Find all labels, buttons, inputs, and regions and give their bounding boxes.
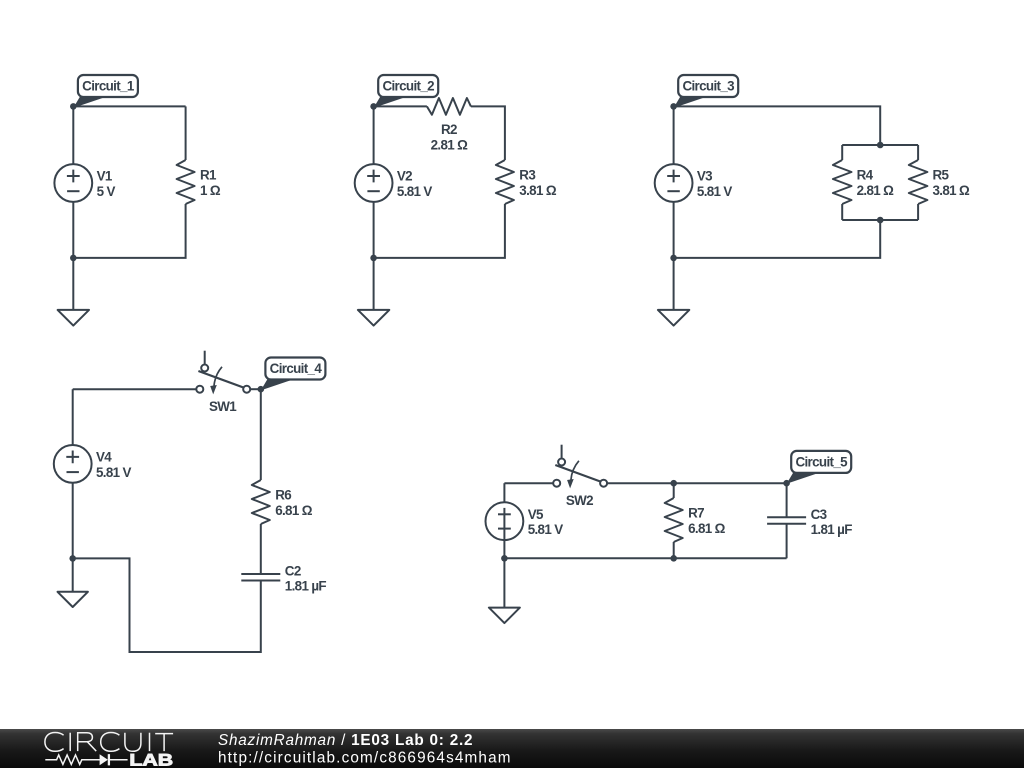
junction bbox=[670, 103, 677, 110]
wire bbox=[72, 202, 74, 258]
svg-text:V4: V4 bbox=[96, 450, 112, 465]
svg-text:R4: R4 bbox=[857, 168, 874, 183]
voltage source V1 bbox=[54, 164, 115, 202]
wire bbox=[786, 524, 788, 559]
wire bbox=[185, 106, 187, 160]
junction bbox=[670, 555, 677, 562]
junction bbox=[370, 255, 377, 262]
wire bbox=[373, 106, 375, 164]
svg-text:V1: V1 bbox=[97, 169, 113, 184]
wire bbox=[674, 220, 881, 258]
junction bbox=[70, 103, 77, 110]
junction bbox=[501, 555, 508, 562]
svg-text:SW1: SW1 bbox=[209, 399, 237, 414]
svg-text:V2: V2 bbox=[397, 169, 412, 184]
wire bbox=[504, 482, 553, 484]
node Circuit_1 label callout bbox=[73, 75, 138, 108]
resistor R1 bbox=[177, 160, 221, 204]
svg-text:C3: C3 bbox=[811, 507, 827, 522]
wire bbox=[374, 105, 427, 107]
ground bbox=[58, 258, 89, 326]
svg-text:1.81 µF: 1.81 µF bbox=[811, 522, 853, 537]
svg-text:C2: C2 bbox=[285, 564, 301, 579]
wire bbox=[471, 106, 505, 160]
ground bbox=[58, 558, 88, 607]
junction bbox=[370, 103, 377, 110]
wire bbox=[842, 144, 918, 146]
wire bbox=[503, 540, 505, 558]
wire bbox=[374, 204, 505, 258]
wire bbox=[673, 202, 675, 258]
junction bbox=[877, 142, 884, 149]
wire bbox=[607, 482, 787, 484]
wire bbox=[260, 524, 262, 574]
wire bbox=[250, 388, 260, 390]
node Circuit_2 label callout bbox=[374, 75, 439, 108]
wire bbox=[674, 106, 881, 145]
svg-text:5.81 V: 5.81 V bbox=[397, 184, 433, 199]
capacitor C3 bbox=[767, 507, 852, 537]
svg-text:R7: R7 bbox=[688, 506, 704, 521]
svg-text:5.81 V: 5.81 V bbox=[697, 184, 733, 199]
node Circuit_4 label callout bbox=[261, 358, 326, 391]
wire bbox=[73, 204, 185, 258]
voltage source V4 bbox=[54, 445, 132, 483]
junction bbox=[670, 255, 677, 262]
capacitor C2 bbox=[241, 564, 326, 594]
svg-text:1 Ω: 1 Ω bbox=[200, 183, 221, 198]
svg-text:1.81 µF: 1.81 µF bbox=[285, 579, 327, 594]
svg-text:2.81 Ω: 2.81 Ω bbox=[857, 183, 895, 198]
resistor R6 bbox=[252, 480, 313, 524]
wire bbox=[373, 202, 375, 258]
wire bbox=[73, 388, 197, 390]
resistor R3 bbox=[496, 160, 557, 204]
junction bbox=[258, 386, 265, 393]
svg-text:Circuit_1: Circuit_1 bbox=[82, 79, 135, 94]
wire bbox=[841, 145, 843, 160]
junction bbox=[877, 217, 884, 224]
junction bbox=[670, 480, 677, 487]
footer bar bbox=[0, 729, 1024, 768]
wire bbox=[673, 542, 675, 558]
switch SW2 bbox=[553, 445, 607, 508]
node Circuit_5 label callout bbox=[787, 451, 852, 484]
wire bbox=[673, 106, 675, 164]
svg-text:ShazimRahman / 1E03 Lab 0: 2.2: ShazimRahman / 1E03 Lab 0: 2.2 bbox=[218, 732, 473, 749]
svg-text:R5: R5 bbox=[933, 168, 950, 183]
ground bbox=[658, 258, 689, 326]
svg-text:5.81 V: 5.81 V bbox=[96, 465, 132, 480]
junction bbox=[69, 555, 76, 562]
voltage source V2 bbox=[355, 164, 433, 202]
svg-text:6.81 Ω: 6.81 Ω bbox=[275, 503, 313, 518]
svg-text:2.81 Ω: 2.81 Ω bbox=[431, 137, 469, 152]
svg-text:R3: R3 bbox=[519, 168, 535, 183]
svg-text:R1: R1 bbox=[200, 168, 217, 183]
wire bbox=[917, 145, 919, 160]
svg-text:V5: V5 bbox=[528, 507, 544, 522]
wire bbox=[917, 204, 919, 220]
svg-text:6.81 Ω: 6.81 Ω bbox=[688, 521, 726, 536]
ground bbox=[358, 258, 389, 326]
switch SW1 bbox=[196, 351, 250, 414]
junction bbox=[70, 255, 77, 262]
resistor R4 bbox=[833, 160, 894, 204]
CircuitLab logo wordmark CIRCUIT bbox=[45, 733, 173, 752]
svg-text:SW2: SW2 bbox=[566, 493, 593, 508]
svg-text:http://circuitlab.com/c866964s: http://circuitlab.com/c866964s4mham bbox=[218, 750, 511, 767]
resistor R7 bbox=[665, 498, 726, 542]
junction bbox=[783, 480, 790, 487]
svg-text:Circuit_2: Circuit_2 bbox=[382, 79, 434, 94]
svg-text:R6: R6 bbox=[275, 488, 291, 503]
voltage source V5 bbox=[486, 502, 564, 540]
wire bbox=[673, 483, 675, 498]
svg-text:R2: R2 bbox=[441, 122, 457, 137]
resistor R5 bbox=[909, 160, 970, 204]
node Circuit_3 label callout bbox=[674, 75, 739, 108]
svg-text:Circuit_4: Circuit_4 bbox=[270, 361, 323, 376]
wire bbox=[260, 389, 262, 480]
svg-text:3.81 Ω: 3.81 Ω bbox=[519, 183, 557, 198]
wire bbox=[842, 219, 918, 221]
wire bbox=[72, 389, 74, 445]
wire bbox=[73, 105, 185, 107]
svg-text:Circuit_5: Circuit_5 bbox=[795, 455, 848, 470]
svg-text:5 V: 5 V bbox=[97, 184, 116, 199]
svg-text:LAB: LAB bbox=[129, 750, 173, 768]
wire bbox=[72, 483, 74, 559]
svg-text:Circuit_3: Circuit_3 bbox=[682, 79, 734, 94]
wire bbox=[503, 483, 505, 502]
wire bbox=[786, 483, 788, 517]
svg-text:5.81 V: 5.81 V bbox=[528, 522, 564, 537]
voltage source V3 bbox=[655, 164, 733, 202]
wire bbox=[73, 558, 261, 652]
wire bbox=[72, 106, 74, 164]
logo resistor-diode glyph bbox=[45, 754, 127, 765]
ground bbox=[489, 558, 520, 623]
svg-text:V3: V3 bbox=[697, 169, 712, 184]
svg-text:3.81 Ω: 3.81 Ω bbox=[933, 183, 971, 198]
wire bbox=[504, 557, 786, 559]
wire bbox=[841, 204, 843, 220]
resistor R2 bbox=[427, 98, 471, 152]
